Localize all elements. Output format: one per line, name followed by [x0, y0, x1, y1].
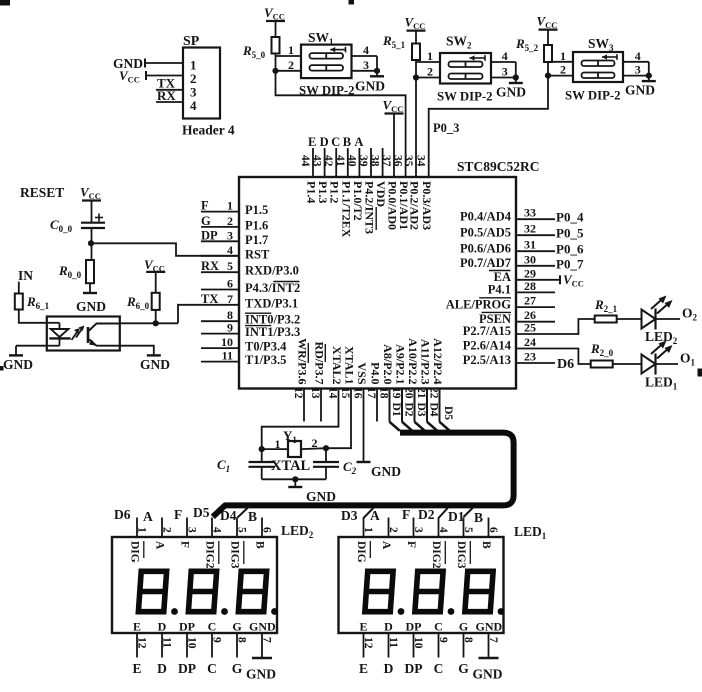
wire pin24 to R2_0	[516, 349, 591, 365]
svg-text:D: D	[384, 661, 394, 676]
wire crystal bottom	[262, 478, 326, 480]
svg-text:VSS: VSS	[355, 362, 369, 384]
svg-text:1: 1	[136, 527, 148, 533]
svg-text:A: A	[354, 135, 363, 149]
svg-text:25: 25	[524, 321, 536, 335]
svg-text:P0_3: P0_3	[433, 121, 459, 135]
wire SW2 pin1	[415, 60, 417, 78]
wire XTAL1 (pin15)	[326, 389, 351, 449]
svg-text:5: 5	[462, 527, 474, 533]
overline INT2	[273, 281, 299, 283]
svg-text:P0_5: P0_5	[556, 226, 584, 241]
svg-text:1: 1	[288, 43, 294, 57]
wire opto LED cathode to ground	[47, 345, 60, 347]
svg-text:31: 31	[524, 238, 536, 252]
svg-text:10: 10	[186, 637, 198, 649]
svg-text:12: 12	[362, 637, 374, 649]
LED LED1	[642, 355, 656, 374]
svg-text:SW DIP-2: SW DIP-2	[565, 89, 621, 103]
svg-text:P0.2/AD2: P0.2/AD2	[408, 181, 422, 230]
pin 1 wire	[201, 211, 239, 213]
svg-text:4: 4	[437, 527, 449, 533]
svg-text:3: 3	[186, 527, 198, 533]
svg-text:D: D	[384, 620, 393, 634]
svg-text:XTAL: XTAL	[271, 458, 311, 474]
svg-text:D: D	[157, 661, 167, 676]
LED2 bottom pin 8	[236, 633, 238, 658]
pin 31 wire	[516, 250, 555, 252]
svg-text:P2.5/A13: P2.5/A13	[463, 353, 511, 367]
ground (SW2 pins 3,4)	[515, 62, 517, 83]
svg-text:F: F	[405, 541, 417, 548]
pin 40 stub	[358, 148, 360, 177]
wire bus tap LED1 pin5	[464, 507, 474, 517]
svg-text:P4.1: P4.1	[488, 283, 511, 297]
svg-text:44: 44	[299, 155, 311, 167]
wire bus tap LED1 pin1	[364, 508, 374, 518]
svg-text:P0.7/AD7: P0.7/AD7	[460, 256, 511, 270]
svg-text:37: 37	[380, 155, 392, 167]
overline INT0	[245, 312, 271, 314]
wire SW1 to P0.1 (pin 36)	[276, 71, 406, 177]
svg-text:TXD/P3.1: TXD/P3.1	[245, 296, 298, 310]
svg-text:D: D	[158, 620, 167, 634]
svg-text:DIG: DIG	[129, 541, 141, 563]
svg-text:23: 23	[524, 350, 536, 364]
svg-text:B: B	[474, 510, 483, 525]
LED1 top pin 4	[438, 518, 440, 538]
svg-text:1: 1	[275, 437, 281, 451]
svg-text:P0.5/AD5: P0.5/AD5	[460, 225, 511, 239]
pin 32 wire	[516, 234, 555, 236]
svg-text:40: 40	[345, 155, 357, 167]
svg-text:28: 28	[524, 279, 536, 293]
digit 1 of LED1	[363, 571, 395, 611]
wire SW2 pin4	[491, 61, 516, 63]
svg-text:D5: D5	[442, 406, 454, 420]
pin 9 wire	[201, 333, 239, 335]
wire reset to RST pin4	[91, 243, 239, 256]
svg-text:6: 6	[261, 527, 273, 533]
svg-text:E: E	[132, 661, 141, 676]
svg-text:4: 4	[635, 49, 641, 63]
svg-text:3: 3	[502, 65, 508, 79]
svg-text:A10/P2.2: A10/P2.2	[406, 338, 420, 384]
svg-text:4: 4	[363, 43, 369, 57]
VCC for SW3	[539, 29, 558, 31]
power VCC (EA pin 29)	[516, 279, 560, 281]
LED1 top pin 6	[488, 518, 490, 538]
pin 11 wire	[201, 361, 239, 363]
pin 8 wire	[201, 320, 239, 322]
svg-text:DP: DP	[405, 661, 423, 676]
digit 3 of LED2	[237, 571, 269, 611]
svg-text:D5: D5	[193, 505, 210, 520]
overline INT3	[375, 207, 377, 230]
ground (VSS)	[357, 461, 371, 463]
svg-text:D6: D6	[114, 507, 131, 522]
svg-text:3: 3	[227, 228, 233, 242]
svg-text:4: 4	[227, 243, 233, 257]
svg-text:13: 13	[309, 387, 321, 399]
svg-text:P0_7: P0_7	[556, 256, 584, 271]
svg-text:7: 7	[227, 292, 233, 306]
svg-text:8: 8	[236, 637, 248, 643]
svg-text:18: 18	[378, 387, 390, 399]
svg-text:42: 42	[322, 155, 334, 167]
svg-text:5: 5	[236, 527, 248, 533]
opto LED	[47, 322, 60, 324]
ground (opto output side)	[147, 354, 161, 356]
svg-text:DP: DP	[201, 228, 218, 242]
LED2 bottom pin 7	[261, 633, 263, 658]
svg-text:C: C	[208, 620, 217, 634]
LED1 top pin 2	[388, 518, 390, 538]
scan mark top-center	[349, 0, 355, 5]
svg-text:P1.6: P1.6	[245, 218, 268, 232]
svg-text:39: 39	[357, 155, 369, 167]
wire SW1 pin1	[275, 54, 277, 71]
svg-text:41: 41	[334, 155, 346, 167]
svg-text:DP: DP	[406, 620, 422, 634]
LED2 bottom pin 11	[161, 633, 163, 658]
wire VSS (pin16) to ground	[363, 389, 365, 462]
svg-text:G: G	[201, 214, 211, 228]
svg-text:11: 11	[222, 349, 233, 363]
ground (opto input side)	[9, 354, 23, 356]
svg-text:A: A	[380, 541, 392, 550]
svg-text:B: B	[248, 509, 257, 524]
svg-text:RESET: RESET	[20, 185, 64, 200]
wire pin 20 to bus	[414, 389, 416, 422]
svg-text:D3: D3	[415, 403, 427, 417]
VCC for SW2	[407, 30, 426, 32]
svg-text:A8/P2.0: A8/P2.0	[381, 344, 395, 384]
svg-text:A11/P2.3: A11/P2.3	[419, 339, 433, 385]
svg-text:E: E	[133, 620, 141, 634]
svg-text:P2.7/A15: P2.7/A15	[463, 324, 511, 338]
svg-text:B: B	[343, 135, 351, 149]
svg-text:P2.6/A14: P2.6/A14	[463, 339, 512, 353]
svg-text:DIG: DIG	[355, 541, 367, 563]
svg-text:GND: GND	[476, 620, 503, 634]
svg-text:RX: RX	[201, 259, 219, 273]
pin 23 wire	[516, 362, 555, 364]
svg-text:DIG3: DIG3	[455, 541, 467, 569]
LED1 bottom pin 10	[413, 633, 415, 658]
wire XTAL2 (pin14)	[262, 389, 339, 450]
LED2 bottom pin 10	[186, 633, 188, 658]
switch SW3	[573, 52, 623, 82]
pin 6 wire	[201, 289, 239, 291]
svg-text:C: C	[207, 661, 217, 676]
LED2 top pin 3	[186, 518, 188, 538]
svg-text:22: 22	[428, 387, 440, 399]
svg-text:5: 5	[227, 259, 233, 273]
svg-text:SW DIP-2: SW DIP-2	[437, 90, 493, 104]
pin 41 stub	[347, 148, 349, 177]
svg-text:2: 2	[560, 63, 566, 77]
svg-text:RX: RX	[157, 88, 176, 103]
LED1 bottom pin 12	[363, 633, 365, 658]
pin 30 wire	[516, 265, 555, 267]
svg-text:GND: GND	[113, 56, 143, 71]
scan mark right-edge	[698, 369, 702, 377]
svg-text:RST: RST	[245, 247, 270, 261]
svg-text:9: 9	[211, 637, 223, 643]
svg-text:4: 4	[211, 527, 223, 533]
LED1 bottom pin 11	[388, 633, 390, 658]
ground (LED2 pin 7)	[252, 657, 272, 659]
wire opto emitter to ground	[120, 346, 154, 355]
svg-text:17: 17	[365, 387, 377, 399]
svg-text:GND: GND	[246, 667, 276, 682]
wire pin 19 to bus	[401, 389, 403, 422]
opto light arrows	[76, 328, 83, 338]
svg-text:GND: GND	[306, 489, 336, 504]
svg-text:TX: TX	[201, 292, 218, 306]
svg-text:36: 36	[392, 155, 404, 167]
LED2 top pin 2	[161, 518, 163, 538]
pin 42 stub	[335, 148, 337, 177]
svg-text:9: 9	[227, 321, 233, 335]
svg-text:D3: D3	[341, 508, 358, 523]
svg-text:10: 10	[221, 335, 233, 349]
ground (LED1 pin 7)	[479, 657, 499, 659]
svg-text:1: 1	[427, 49, 433, 63]
svg-text:3: 3	[635, 63, 641, 77]
svg-text:DIG2: DIG2	[430, 541, 442, 569]
svg-text:2: 2	[312, 436, 318, 450]
overline PSEN	[482, 311, 512, 313]
svg-text:T1/P3.5: T1/P3.5	[245, 353, 286, 367]
pin 17 stub	[376, 389, 378, 422]
svg-text:38: 38	[369, 155, 381, 167]
svg-text:XTAL1: XTAL1	[343, 346, 357, 384]
svg-text:19: 19	[390, 387, 402, 399]
svg-text:6: 6	[487, 527, 499, 533]
overline EA	[489, 270, 511, 272]
svg-text:D: D	[320, 135, 329, 149]
svg-text:XTAL2: XTAL2	[330, 346, 344, 384]
svg-text:P0.6/AD6: P0.6/AD6	[460, 241, 511, 255]
svg-text:D2: D2	[418, 507, 435, 522]
digit 2 of LED2	[187, 571, 219, 611]
LED1 top pin 1	[363, 518, 365, 538]
svg-text:GND: GND	[496, 85, 526, 100]
svg-text:IN: IN	[18, 268, 33, 283]
svg-text:P0.4/AD4: P0.4/AD4	[460, 209, 512, 223]
LED2 top pin 4	[211, 518, 213, 538]
svg-text:P4.0: P4.0	[369, 362, 383, 384]
pin 27 wire	[516, 306, 555, 308]
svg-text:D1: D1	[390, 403, 402, 417]
connector SP (Header 4)	[183, 48, 220, 119]
svg-text:P0_6: P0_6	[556, 242, 584, 257]
svg-text:E: E	[359, 661, 368, 676]
svg-text:30: 30	[524, 252, 536, 266]
svg-text:G: G	[232, 620, 241, 634]
svg-text:32: 32	[524, 222, 536, 236]
pin 43 stub	[324, 148, 326, 177]
pin 4 wire	[201, 255, 239, 257]
svg-text:A: A	[143, 509, 153, 524]
switch SW2	[440, 53, 491, 84]
svg-text:G: G	[458, 661, 469, 676]
svg-text:C: C	[331, 135, 340, 149]
svg-text:A12/P2.4: A12/P2.4	[431, 338, 445, 384]
digit 3 of LED1	[463, 571, 495, 611]
display LED1	[339, 537, 504, 633]
svg-text:P0_4: P0_4	[556, 210, 584, 225]
svg-text:2: 2	[161, 527, 173, 533]
svg-text:E: E	[359, 620, 367, 634]
svg-text:1: 1	[227, 199, 233, 213]
pin 33 wire	[516, 218, 555, 220]
svg-text:24: 24	[524, 335, 536, 349]
svg-text:34: 34	[415, 155, 427, 167]
svg-text:4: 4	[502, 49, 508, 63]
overline PROG	[479, 297, 511, 299]
wire SW1 pin3	[352, 70, 378, 72]
svg-text:9: 9	[437, 637, 449, 643]
svg-text:DP: DP	[178, 661, 196, 676]
svg-text:3: 3	[412, 527, 424, 533]
digit 2 of LED1	[413, 571, 445, 611]
overline INT1	[245, 325, 271, 327]
bus (D1-D5 thick wire)	[213, 433, 514, 517]
LED2 bottom pin 9	[211, 633, 213, 658]
digit 1 of LED2	[137, 571, 169, 611]
svg-text:E: E	[308, 135, 316, 149]
wire SW1 pin2 / junction	[276, 70, 302, 72]
pin 10 wire	[201, 347, 239, 349]
svg-text:DP: DP	[179, 620, 195, 634]
wire SW3 pin3	[623, 75, 649, 77]
wire bus tap LED1 pin4	[439, 508, 448, 518]
overline WR	[307, 343, 309, 363]
pin 3 wire	[201, 240, 239, 242]
svg-text:15: 15	[339, 387, 351, 399]
svg-text:GND: GND	[355, 79, 385, 94]
VCC for SW1	[266, 20, 285, 22]
pin 13 stub	[320, 389, 322, 422]
scan mark left-edge	[0, 366, 4, 371]
opto phototransistor	[87, 327, 90, 343]
svg-text:B: B	[480, 541, 492, 549]
svg-text:GND: GND	[473, 667, 503, 682]
svg-text:P0.3/AD3: P0.3/AD3	[420, 181, 434, 230]
ground (R0_0)	[89, 283, 91, 292]
wire SW3 to P0_3 (pin 34)	[429, 76, 548, 177]
svg-text:14: 14	[327, 387, 339, 399]
svg-text:INT1/P3.3: INT1/P3.3	[245, 325, 300, 339]
svg-text:F: F	[174, 507, 182, 522]
svg-text:D1: D1	[448, 509, 465, 524]
svg-text:F: F	[402, 507, 410, 522]
power VCC (VDD pin)	[385, 112, 404, 114]
wire SW2 pin3	[491, 77, 516, 79]
svg-text:GND: GND	[76, 299, 106, 314]
overline RD	[324, 344, 326, 362]
pin 26 wire	[516, 321, 555, 323]
svg-text:6: 6	[227, 277, 233, 291]
svg-text:G: G	[232, 661, 243, 676]
scan mark top-left	[0, 0, 10, 6]
ground (SW3 pins 3,4)	[648, 62, 650, 81]
svg-text:RD/P3.7: RD/P3.7	[313, 342, 327, 385]
optocoupler U2	[47, 317, 120, 351]
svg-text:2: 2	[387, 527, 399, 533]
svg-text:2: 2	[288, 58, 294, 72]
svg-text:20: 20	[403, 387, 415, 399]
svg-text:WR/P3.6: WR/P3.6	[296, 338, 310, 384]
svg-text:RXD/P3.0: RXD/P3.0	[245, 264, 299, 278]
svg-text:P1.7: P1.7	[245, 233, 268, 247]
svg-text:A: A	[154, 541, 166, 550]
ground (crystal)	[294, 479, 296, 486]
svg-text:GND: GND	[3, 357, 33, 372]
LED2 top pin 6	[261, 518, 263, 538]
svg-text:GND: GND	[249, 620, 276, 634]
wire R2_0 to LED1	[613, 363, 642, 365]
wire SW3 pin4	[623, 61, 649, 63]
svg-text:T0/P3.4: T0/P3.4	[245, 340, 287, 354]
pin 12 stub	[303, 389, 305, 422]
svg-text:STC89C52RC: STC89C52RC	[457, 159, 540, 174]
svg-text:16: 16	[352, 387, 364, 399]
wire R6_1 to opto	[19, 310, 47, 323]
wire opto collector to TX pin7	[120, 322, 178, 324]
power VCC (reset)	[82, 199, 101, 201]
LED1 bottom pin 8	[463, 633, 465, 658]
ground (SW1 pins 3,4)	[376, 56, 378, 76]
pin 44 stub	[312, 148, 314, 177]
svg-text:D2: D2	[403, 403, 415, 417]
svg-text:F: F	[201, 199, 209, 213]
LED1 top pin 3	[413, 518, 415, 538]
pin 39 stub	[370, 148, 372, 177]
svg-text:DIG3: DIG3	[229, 541, 241, 569]
svg-text:7: 7	[487, 637, 499, 643]
wire SW1 pin4	[352, 55, 378, 57]
svg-text:1: 1	[362, 527, 374, 533]
LED2 bottom pin 12	[136, 633, 138, 658]
LED1 top pin 5	[463, 518, 465, 538]
pin 5 wire	[201, 271, 239, 273]
wire R2_1 to LED2	[617, 318, 642, 320]
svg-text:33: 33	[524, 206, 536, 220]
svg-text:4: 4	[190, 98, 197, 113]
svg-text:C: C	[434, 620, 443, 634]
wire SW2 to P0.2 (pin 35)	[415, 78, 417, 178]
svg-text:Header 4: Header 4	[182, 123, 235, 138]
svg-text:11: 11	[161, 637, 173, 648]
power VCC (R6_0)	[146, 271, 165, 273]
svg-text:1: 1	[560, 49, 566, 63]
LED1 bottom pin 7	[488, 633, 490, 658]
svg-text:SP: SP	[183, 34, 200, 49]
wire SW3 pin1	[547, 62, 549, 76]
svg-text:DIG2: DIG2	[204, 541, 216, 569]
svg-text:GND: GND	[371, 464, 401, 479]
svg-text:ALE/PROG: ALE/PROG	[446, 297, 512, 311]
svg-text:8: 8	[462, 637, 474, 643]
svg-text:27: 27	[524, 294, 536, 308]
pin 7 wire	[201, 304, 239, 306]
switch SW1	[301, 45, 352, 79]
svg-text:2: 2	[427, 65, 433, 79]
